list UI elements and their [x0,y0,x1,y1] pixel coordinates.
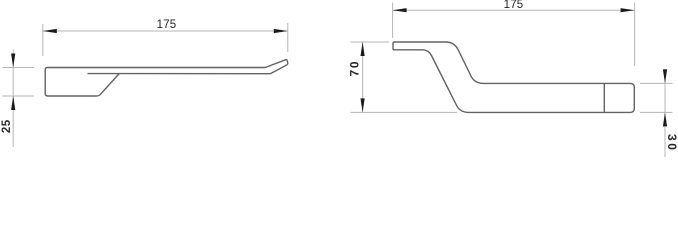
svg-text:2: 2 [1,127,13,133]
svg-text:175: 175 [157,19,177,31]
svg-text:3: 3 [665,134,678,141]
svg-text:175: 175 [504,0,524,11]
svg-text:0: 0 [348,61,362,68]
svg-text:7: 7 [348,70,362,77]
svg-text:5: 5 [1,119,13,126]
svg-text:0: 0 [665,143,678,150]
